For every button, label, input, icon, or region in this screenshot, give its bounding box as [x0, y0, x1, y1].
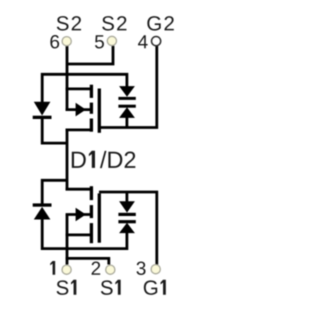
wire D2 cathode down and corner right to drain node: [42, 119, 66, 144]
wire G1 gate line and vertical to pin3: [99, 192, 157, 265]
wire rail pins 1-2 and pin2 vertical: [66, 258, 109, 264]
wire pin6 vertical S2 down to Q2 body stub: [66, 46, 69, 111]
pin 2 terminal circle S1: [106, 265, 115, 274]
Q1 channel segment 2: [90, 205, 93, 218]
label S2 (pin 6): [57, 16, 81, 31]
pin number 5: [95, 35, 104, 48]
pin number 2: [92, 262, 101, 275]
wire S1 left vertical from body stub to pin1: [66, 215, 69, 265]
label G2 (pin 4): [147, 16, 173, 31]
Q1 channel segment 3: [90, 223, 93, 243]
label S1 (pin 2): [101, 280, 121, 295]
transistor Q1 (lower N-MOSFET): [91, 186, 99, 243]
node D1/D2 common drain label: [72, 151, 136, 168]
pin 3 terminal circle G1: [151, 265, 160, 274]
transistor Q2 (upper N-MOSFET): [91, 85, 99, 133]
pin number 1: [50, 261, 55, 275]
label G1 (pin 3): [144, 280, 166, 295]
wire lower zener top to gate line: [126, 192, 129, 202]
diode D1 body diode (anode S1, cathode drain): [33, 203, 52, 219]
pin 6 terminal circle S2: [62, 37, 71, 46]
Q2 channel segment 1: [90, 85, 93, 98]
pin 1 terminal circle S1: [62, 265, 71, 274]
wire Q2 body stub: [66, 108, 90, 111]
label S2 (pin 5): [102, 16, 126, 31]
wire Q2 source stub: [66, 88, 92, 91]
Q1 channel segment 1: [90, 186, 93, 200]
wire G2 gate line and vertical to pin4: [99, 46, 157, 128]
wire rail B S2: left branch corner to upper zener corner: [42, 74, 127, 102]
pin number 3: [137, 262, 146, 275]
wire upper zener bottom to gate line: [126, 117, 129, 127]
pin number 4: [138, 35, 148, 48]
Q2 body arrow: [76, 103, 86, 117]
pin number 6: [50, 35, 59, 48]
wire common drain center vertical D1/D2: [66, 129, 69, 191]
pin 5 terminal circle S2: [107, 36, 116, 45]
wire Q1 source stub: [66, 233, 92, 236]
wire Q1 drain stub: [66, 188, 92, 191]
label S1 (pin 1): [57, 280, 77, 295]
Q1 gate plate: [98, 193, 101, 242]
wire D1 cathode corner from drain node: [42, 180, 66, 204]
wire Q1 body stub: [66, 213, 90, 216]
Q2 channel segment 2: [90, 103, 93, 114]
diode D2 body diode (anode S2, cathode drain): [33, 102, 52, 119]
wire rail S1: D1 anode corner to lower zener bottom: [42, 219, 127, 249]
zener pair Z1 gate-source protection (lower): [118, 201, 135, 233]
Q2 channel segment 3: [90, 119, 93, 132]
wire Q2 drain stub: [66, 128, 92, 131]
wire pin5 vertical and rail A to pin6: [66, 46, 113, 64]
Q1 body arrow: [76, 208, 86, 222]
Q2 gate plate: [98, 89, 101, 133]
pin 4 terminal circle G2: [152, 37, 161, 46]
zener pair Z2 gate-source protection (upper): [118, 86, 135, 118]
